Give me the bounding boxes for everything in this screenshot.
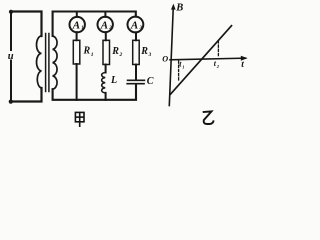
resistor R2 (103, 40, 110, 64)
node: source bottom terminal dot (9, 100, 13, 104)
wire: branch 2 tap (104, 12, 106, 17)
wire: R1 to bottom rail (76, 64, 78, 100)
node: source top terminal dot (9, 10, 13, 14)
svg-text:1: 1 (91, 52, 94, 58)
svg-text:R: R (83, 46, 91, 57)
wire: secondary top rail (53, 12, 136, 37)
graph: dashed line at t1 (178, 61, 180, 81)
svg-text:A: A (100, 20, 108, 32)
svg-text:u: u (8, 51, 14, 62)
svg-text:A: A (72, 20, 80, 32)
wire: A1 to R1 (76, 32, 78, 40)
svg-text:3: 3 (139, 26, 143, 31)
wire: secondary bottom rail (53, 84, 136, 100)
wire: bottom rail primary side (11, 88, 42, 102)
resistor R3 (133, 40, 140, 64)
transformer T1 secondary winding (53, 36, 57, 89)
graph: B axis arrowhead (171, 4, 176, 10)
graph: t axis (170, 58, 246, 60)
svg-text:1: 1 (81, 26, 83, 31)
wire: branch 1 tap (76, 12, 78, 17)
transformer T1 core line left (45, 34, 47, 92)
ammeter A3 (127, 17, 143, 33)
svg-text:A: A (130, 20, 138, 32)
wire: A3 to R3 (135, 32, 137, 40)
resistor R1 (73, 40, 80, 64)
graph: t axis arrowhead (241, 56, 248, 61)
svg-text:O: O (162, 54, 168, 63)
svg-text:B: B (175, 3, 183, 14)
wire: inductor to bottom rail (105, 93, 107, 100)
wire: top rail primary side (11, 12, 42, 37)
inductor L (102, 73, 106, 93)
capacitor C bottom plate (127, 83, 144, 85)
svg-text:R: R (111, 46, 119, 57)
svg-text:R: R (140, 46, 148, 57)
graph: B axis (169, 7, 245, 106)
transformer T1 primary winding (37, 36, 42, 88)
capacitor C top plate (128, 79, 145, 81)
ammeter A2 (98, 17, 113, 32)
wire: source left vertical upper (10, 12, 12, 51)
svg-text:3: 3 (148, 52, 152, 58)
wire: source left vertical lower (10, 61, 12, 102)
label 甲 (figure A) (75, 112, 84, 127)
svg-text:L: L (110, 75, 117, 86)
svg-text:2: 2 (119, 52, 123, 58)
label 乙 (figure B) (203, 111, 214, 124)
svg-text:2: 2 (108, 26, 112, 31)
wire: R3 to capacitor (135, 65, 137, 80)
wire: A2 to R2 (105, 32, 107, 40)
svg-text:1: 1 (182, 64, 184, 69)
wire: R2 to inductor (105, 65, 107, 73)
ammeter A1 (70, 17, 85, 32)
svg-text:C: C (147, 76, 154, 87)
graph: B(t) line (170, 26, 231, 95)
graph: dashed line at t2 (217, 41, 219, 58)
transformer T1 core line right (48, 34, 50, 92)
svg-text:t: t (241, 60, 244, 70)
